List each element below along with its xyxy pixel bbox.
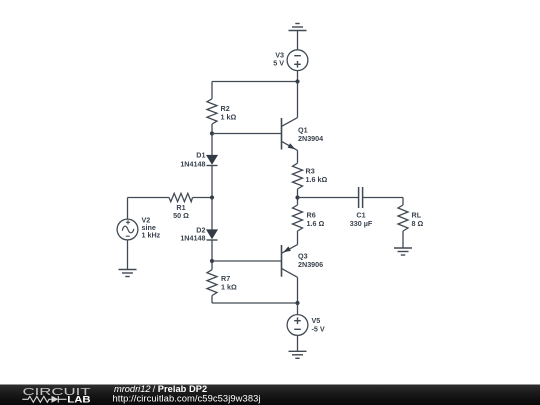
wire R3 to node xyxy=(297,189,299,198)
svg-text:1N4148: 1N4148 xyxy=(180,160,205,169)
svg-text:1 kΩ: 1 kΩ xyxy=(221,113,237,122)
ground (below V2) xyxy=(119,270,137,277)
svg-text:1.6 kΩ: 1.6 kΩ xyxy=(306,175,328,184)
wire base of Q3 xyxy=(212,260,282,262)
wire R7 to bottom rail xyxy=(211,296,213,304)
wire V3 to top rail xyxy=(297,71,299,82)
wire R1 to node xyxy=(193,197,213,199)
wire top rail xyxy=(212,81,298,83)
wire top rail down to R2 xyxy=(211,82,213,99)
diode D1 xyxy=(180,134,217,169)
capacitor C1 xyxy=(350,187,373,228)
transistor Q1 xyxy=(282,82,324,151)
node D2/R7/base junction xyxy=(210,259,214,263)
svg-text:1.6 Ω: 1.6 Ω xyxy=(307,219,325,228)
svg-text:5 V: 5 V xyxy=(273,59,284,68)
wire C1 left xyxy=(298,197,359,199)
ground (below V5) xyxy=(289,351,307,358)
svg-text:2N3904: 2N3904 xyxy=(298,134,323,143)
wire C1 to RL xyxy=(363,197,403,199)
diode D2 xyxy=(180,198,217,243)
svg-text:2N3906: 2N3906 xyxy=(298,260,323,269)
svg-text:1 kHz: 1 kHz xyxy=(142,231,161,240)
resistor R7 xyxy=(207,261,237,296)
wire R2 to node xyxy=(211,124,213,134)
resistor R3 xyxy=(293,163,328,189)
voltage source V2 xyxy=(117,198,161,240)
resistor R1 xyxy=(169,193,193,220)
ground (top, flipped) xyxy=(289,24,307,31)
svg-text:8 Ω: 8 Ω xyxy=(412,219,424,228)
svg-text:1 kΩ: 1 kΩ xyxy=(221,283,237,292)
wire RL to ground xyxy=(402,231,404,248)
node R3/R6/C1 junction xyxy=(295,195,299,199)
node top-rail junction xyxy=(295,79,299,83)
voltage source V3 xyxy=(273,50,308,71)
wire base of Q1 xyxy=(212,133,282,135)
wire V5 to ground xyxy=(297,335,299,351)
svg-text:330 µF: 330 µF xyxy=(350,219,373,228)
resistor R6 xyxy=(293,205,325,231)
svg-text:1N4148: 1N4148 xyxy=(180,234,205,243)
node R1/D1/D2 junction xyxy=(210,195,214,199)
svg-text:50 Ω: 50 Ω xyxy=(173,211,189,220)
node R2/D1/base junction xyxy=(210,131,214,135)
wire D1 to node xyxy=(211,166,213,198)
wire R6 to Q3 emitter xyxy=(297,231,299,245)
ground (below RL) xyxy=(394,248,412,255)
wire V2 to ground xyxy=(127,240,129,270)
wire D2 to node xyxy=(211,240,213,261)
svg-text:http://circuitlab.com/c59c53j9: http://circuitlab.com/c59c53j9w383j xyxy=(113,393,261,404)
svg-text:LAB: LAB xyxy=(67,395,90,405)
transistor Q3 xyxy=(282,245,324,303)
svg-text:-5 V: -5 V xyxy=(312,325,325,334)
wire node to R6 xyxy=(297,198,299,206)
svg-text:D1: D1 xyxy=(196,151,205,160)
wire Q1 emitter to R3 xyxy=(297,150,299,163)
voltage source V5 xyxy=(287,303,325,335)
resistor R2 xyxy=(207,99,236,124)
wire bottom rail xyxy=(212,302,298,304)
logo resistor-diode glyph xyxy=(22,396,66,403)
resistor RL xyxy=(398,198,423,232)
node bottom-rail junction xyxy=(295,301,299,305)
wire V2 to R1 xyxy=(128,197,170,199)
wire top-ground to V3 xyxy=(297,31,299,50)
